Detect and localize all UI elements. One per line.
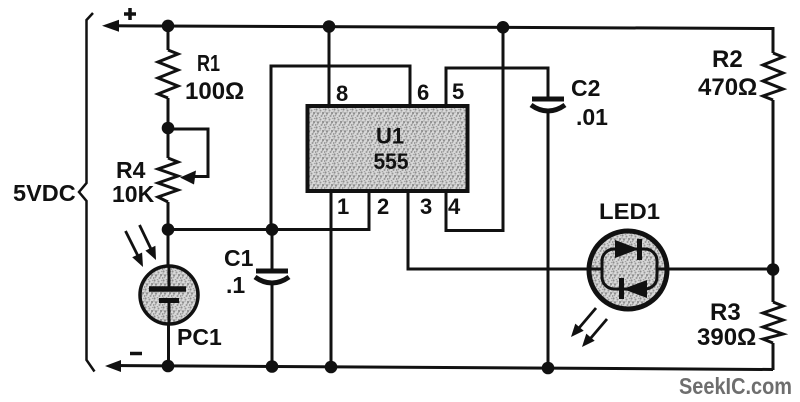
svg-text:PC1: PC1: [177, 324, 222, 350]
svg-text:470Ω: 470Ω: [698, 74, 757, 101]
svg-text:LED1: LED1: [599, 199, 660, 224]
svg-text:U1: U1: [376, 124, 404, 149]
svg-text:8: 8: [336, 81, 348, 106]
svg-text:C2: C2: [571, 75, 600, 101]
svg-text:.1: .1: [226, 272, 245, 298]
svg-text:100Ω: 100Ω: [185, 78, 244, 105]
svg-text:5VDC: 5VDC: [13, 180, 76, 206]
svg-text:R4: R4: [116, 157, 146, 183]
svg-text:R3: R3: [710, 299, 741, 326]
svg-text:C1: C1: [224, 245, 254, 271]
svg-text:1: 1: [337, 194, 349, 219]
svg-text:6: 6: [417, 80, 429, 105]
svg-text:5: 5: [452, 79, 464, 104]
svg-text:2: 2: [377, 194, 389, 219]
svg-text:390Ω: 390Ω: [697, 324, 756, 351]
svg-text:.01: .01: [576, 104, 608, 130]
svg-text:555: 555: [374, 149, 409, 174]
svg-text:10K: 10K: [112, 181, 155, 207]
svg-text:R1: R1: [197, 50, 220, 76]
svg-text:R2: R2: [712, 46, 743, 73]
svg-text:3: 3: [420, 194, 432, 219]
svg-text:4: 4: [448, 194, 461, 219]
svg-text:SeekIC.com: SeekIC.com: [679, 373, 792, 399]
